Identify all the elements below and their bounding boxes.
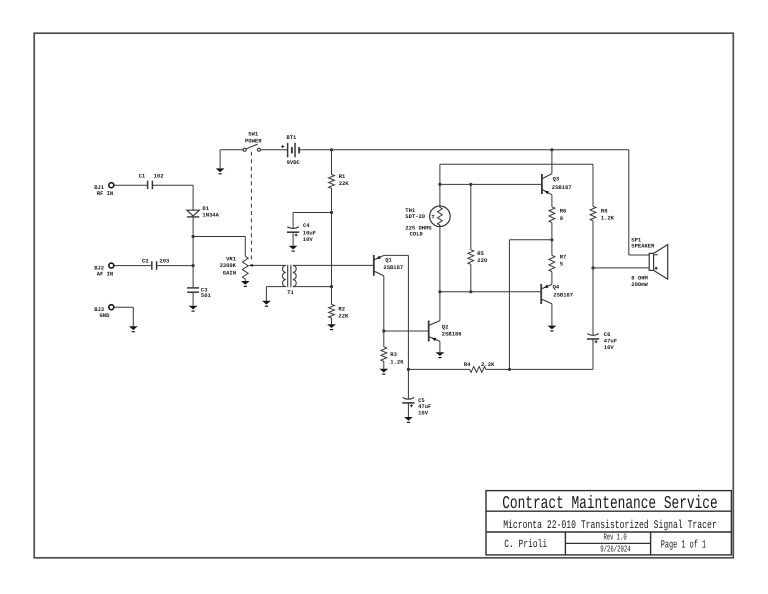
svg-text:R4: R4 — [464, 361, 471, 368]
svg-text:RF IN: RF IN — [97, 190, 114, 197]
svg-text:10V: 10V — [303, 236, 314, 243]
svg-text:10V: 10V — [418, 410, 429, 417]
svg-text:1N34A: 1N34A — [202, 212, 219, 219]
svg-text:203: 203 — [159, 258, 170, 265]
svg-text:9VDC: 9VDC — [287, 159, 301, 166]
svg-text:R6: R6 — [560, 208, 567, 215]
svg-text:22K: 22K — [338, 313, 349, 320]
svg-text:10V: 10V — [604, 344, 615, 351]
svg-text:Q1: Q1 — [385, 256, 392, 263]
svg-text:2SB187: 2SB187 — [552, 184, 572, 191]
svg-text:2SB187: 2SB187 — [553, 292, 573, 299]
svg-text:2.2K: 2.2K — [481, 361, 495, 368]
svg-text:SDT-20: SDT-20 — [405, 213, 425, 220]
svg-text:3300K: 3300K — [219, 262, 236, 269]
svg-text:POWER: POWER — [245, 138, 262, 145]
svg-text:R8: R8 — [601, 208, 608, 215]
svg-text:R1: R1 — [339, 173, 346, 180]
svg-text:SPEAKER: SPEAKER — [631, 243, 655, 250]
svg-text:Q4: Q4 — [553, 284, 560, 291]
svg-text:R3: R3 — [390, 351, 397, 358]
svg-text:220: 220 — [477, 257, 487, 264]
svg-text:2SB186: 2SB186 — [442, 330, 462, 337]
svg-text:Page 1 of 1: Page 1 of 1 — [661, 540, 707, 552]
svg-text:Contract Maintenance Service: Contract Maintenance Service — [502, 494, 718, 514]
svg-text:COLD: COLD — [410, 231, 424, 238]
svg-text:200mW: 200mW — [631, 281, 648, 288]
svg-text:GAIN: GAIN — [223, 270, 236, 277]
svg-text:Micronta 22-010 Transistorized: Micronta 22-010 Transistorized Signal Tr… — [503, 519, 717, 532]
svg-text:Rev 1.0: Rev 1.0 — [604, 533, 627, 543]
svg-text:T1: T1 — [287, 289, 294, 296]
svg-text:9/26/2024: 9/26/2024 — [600, 545, 631, 555]
svg-text:R7: R7 — [560, 254, 567, 261]
svg-text:102: 102 — [154, 173, 164, 180]
svg-text:SW1: SW1 — [248, 130, 259, 137]
svg-text:Q3: Q3 — [553, 176, 560, 183]
svg-text:C1: C1 — [139, 173, 146, 180]
svg-text:2SB187: 2SB187 — [383, 264, 403, 271]
svg-text:R2: R2 — [338, 306, 345, 313]
svg-text:501: 501 — [201, 292, 212, 299]
svg-text:C4: C4 — [303, 222, 310, 229]
svg-text:9: 9 — [560, 215, 563, 222]
svg-text:BT1: BT1 — [286, 134, 297, 141]
svg-text:1.2K: 1.2K — [390, 358, 404, 365]
svg-text:1.2K: 1.2K — [601, 215, 615, 222]
svg-text:AF IN: AF IN — [97, 270, 114, 277]
svg-text:C2: C2 — [142, 258, 149, 265]
svg-text:GND: GND — [100, 312, 111, 319]
svg-text:22K: 22K — [339, 180, 350, 187]
svg-text:C. Prioli: C. Prioli — [504, 539, 547, 551]
